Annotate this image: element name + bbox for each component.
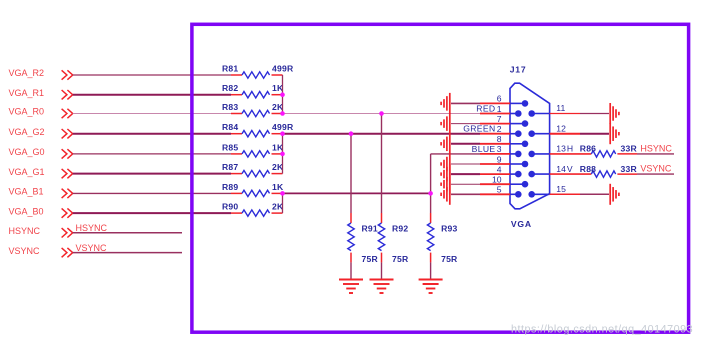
svg-text:VSYNC: VSYNC: [76, 243, 108, 253]
svg-text:BLUE: BLUE: [472, 144, 496, 154]
svg-text:RED: RED: [476, 103, 495, 113]
svg-text:VGA: VGA: [511, 219, 532, 229]
svg-text:R81: R81: [222, 63, 238, 73]
svg-text:15: 15: [556, 184, 566, 194]
svg-text:7: 7: [497, 114, 502, 124]
svg-text:13: 13: [556, 144, 566, 154]
svg-text:VGA_R0: VGA_R0: [9, 107, 45, 117]
svg-text:8: 8: [497, 134, 502, 144]
svg-text:R82: R82: [222, 83, 238, 93]
svg-text:33R: 33R: [621, 144, 638, 154]
svg-text:V: V: [567, 164, 573, 174]
svg-text:R93: R93: [441, 224, 457, 234]
svg-text:VGA_R2: VGA_R2: [9, 68, 45, 78]
svg-text:VGA_R1: VGA_R1: [9, 88, 45, 98]
svg-text:499R: 499R: [272, 122, 294, 132]
svg-text:75R: 75R: [362, 254, 379, 264]
svg-text:6: 6: [497, 94, 502, 104]
svg-text:R83: R83: [222, 102, 238, 112]
svg-text:GREEN: GREEN: [463, 124, 495, 134]
svg-text:R92: R92: [392, 224, 408, 234]
svg-text:1K: 1K: [272, 182, 284, 192]
svg-text:75R: 75R: [392, 254, 409, 264]
svg-text:1: 1: [497, 104, 502, 114]
svg-text:4: 4: [497, 164, 502, 174]
svg-text:5: 5: [497, 185, 502, 195]
svg-text:R91: R91: [362, 224, 378, 234]
svg-text:J17: J17: [510, 65, 527, 75]
svg-text:VGA_G1: VGA_G1: [9, 167, 45, 177]
svg-text:R84: R84: [222, 122, 238, 132]
svg-text:14: 14: [556, 164, 566, 174]
svg-text:VGA_G2: VGA_G2: [9, 127, 45, 137]
svg-text:HSYNC: HSYNC: [9, 226, 41, 236]
svg-text:VSYNC: VSYNC: [640, 164, 672, 174]
svg-text:R86: R86: [580, 144, 596, 154]
svg-text:9: 9: [497, 154, 502, 164]
svg-text:VGA_B1: VGA_B1: [9, 187, 44, 197]
svg-text:3: 3: [497, 144, 502, 154]
svg-text:2: 2: [497, 124, 502, 134]
svg-text:R88: R88: [580, 164, 596, 174]
svg-text:https://blog.csdn.net/qq_40147: https://blog.csdn.net/qq_40147093: [511, 324, 693, 336]
svg-text:HSYNC: HSYNC: [76, 223, 108, 233]
svg-text:499R: 499R: [272, 63, 294, 73]
svg-text:R89: R89: [222, 182, 238, 192]
svg-text:33R: 33R: [621, 164, 638, 174]
svg-text:R90: R90: [222, 202, 238, 212]
svg-text:VGA_B0: VGA_B0: [9, 206, 44, 216]
svg-text:VSYNC: VSYNC: [9, 246, 41, 256]
svg-text:HSYNC: HSYNC: [640, 143, 672, 153]
svg-text:10: 10: [492, 175, 502, 185]
svg-text:VGA_G0: VGA_G0: [9, 147, 45, 157]
svg-text:75R: 75R: [441, 254, 458, 264]
svg-text:12: 12: [556, 123, 566, 133]
svg-text:R87: R87: [222, 162, 238, 172]
svg-text:11: 11: [556, 103, 565, 113]
svg-text:R85: R85: [222, 142, 238, 152]
svg-text:H: H: [567, 144, 573, 154]
